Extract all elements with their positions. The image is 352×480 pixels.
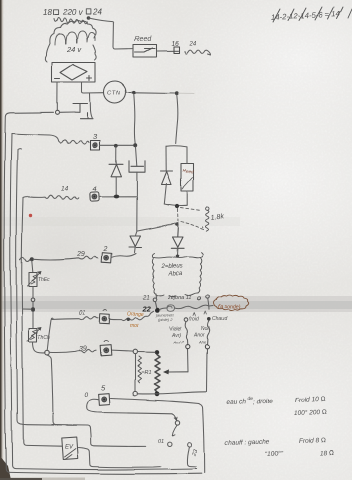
bus wire V2 bbox=[10, 134, 196, 470]
junction dot on 01 row bbox=[127, 318, 130, 321]
scribble circle node bbox=[167, 305, 175, 312]
junction dot row29 bbox=[30, 257, 34, 261]
svg-text:Avr): Avr) bbox=[171, 333, 181, 339]
wire ThCh to node circle 39 bbox=[33, 342, 45, 353]
svg-text:14-2-12-14-5-8 = 14: 14-2-12-14-5-8 = 14 bbox=[271, 9, 342, 22]
bus wire V1 outermost bbox=[4, 112, 201, 474]
reed switch box bbox=[133, 45, 156, 58]
wire reed to terminal 16 bbox=[156, 50, 178, 52]
svg-text:≈R1: ≈R1 bbox=[141, 370, 151, 376]
big enclosure right edge bbox=[199, 404, 204, 473]
potentiometer body zigzag bbox=[155, 355, 160, 393]
svg-text:24 v: 24 v bbox=[66, 45, 82, 54]
right loop top wire bbox=[166, 146, 187, 147]
junction blob row4 bbox=[114, 195, 120, 199]
svg-text:CTN: CTN bbox=[108, 91, 122, 97]
wire ThEc down bbox=[32, 287, 34, 299]
bridge rectifier diamond bbox=[61, 65, 88, 81]
svg-text:Reed: Reed bbox=[182, 168, 194, 175]
node circle wiper top bbox=[185, 345, 189, 349]
bottom wire of right loop bbox=[164, 204, 187, 206]
svg-text:eau ch: eau ch bbox=[227, 398, 247, 406]
svg-text:Ahe: Ahe bbox=[198, 340, 207, 345]
svg-text:Reed: Reed bbox=[134, 36, 152, 43]
wire 01-corner down through node39 bbox=[47, 318, 62, 425]
svg-text:; droite: ; droite bbox=[253, 398, 273, 406]
faint fold band upper bbox=[0, 217, 240, 226]
01 row wire from corner bbox=[51, 317, 99, 320]
svg-text:2=bleus: 2=bleus bbox=[160, 264, 182, 270]
relay coil Reed (vertical box) bbox=[181, 164, 194, 192]
wire froid down to pot wiper node bbox=[185, 322, 187, 345]
terminal box 39 bbox=[100, 341, 111, 356]
svg-text:23: 23 bbox=[191, 448, 199, 458]
svg-text:100° 200 Ω: 100° 200 Ω bbox=[294, 408, 327, 417]
strike marks over arithmetic bbox=[273, 7, 352, 22]
faint stub right of node B bbox=[179, 92, 195, 94]
bus wire V3 with bottom run to contact 01 bbox=[16, 149, 146, 447]
contact terminal 23 bbox=[187, 443, 191, 447]
solenoid valve EV box bbox=[62, 437, 78, 459]
diode D1 bbox=[129, 236, 142, 248]
node circle pot bottom left bbox=[133, 391, 137, 395]
junction dot right loop bbox=[175, 204, 179, 208]
switch blade with arrow bbox=[172, 426, 177, 436]
tiny arrows froid chaud bbox=[194, 312, 207, 316]
diode D3 (right loop) bbox=[161, 171, 173, 185]
wire box39 to pot top bbox=[112, 351, 133, 352]
wire pot top segment bbox=[137, 351, 155, 353]
node circle left of capacitor bbox=[56, 110, 60, 114]
svg-text:Abca: Abca bbox=[167, 272, 182, 278]
row29 bus hump bbox=[20, 257, 30, 261]
svg-text:froid: froid bbox=[190, 317, 200, 323]
terminal box 5 bbox=[99, 394, 110, 406]
svg-text:0: 0 bbox=[84, 392, 88, 399]
wire box2 to D1 bottom bbox=[112, 254, 137, 258]
thermistor ThEc bbox=[28, 271, 42, 287]
minus sign bbox=[55, 78, 60, 80]
reed switch contacts bbox=[135, 48, 155, 52]
bridge rectifier box bbox=[52, 63, 96, 83]
label 24 with terminal square bbox=[86, 8, 102, 17]
resistor squiggle row3 bbox=[59, 139, 90, 143]
handwriting note line 1 bbox=[227, 396, 273, 406]
junction dot pot bottom bbox=[155, 391, 160, 396]
resistor squiggle row4 bbox=[28, 196, 79, 200]
label 18 with terminal square bbox=[43, 8, 58, 17]
svg-text:18: 18 bbox=[43, 8, 52, 17]
terminal circle at 1.8k top bbox=[206, 207, 209, 210]
svg-text:24: 24 bbox=[92, 8, 102, 17]
terminal box 01 bbox=[100, 310, 110, 324]
wire chaud down to pot right node bbox=[207, 321, 209, 344]
junction dot 22 bbox=[155, 308, 160, 313]
node circle froid bbox=[184, 318, 188, 322]
right loop left wire bbox=[165, 146, 167, 170]
svg-text:18 Ω: 18 Ω bbox=[320, 450, 334, 457]
wire bridge minus down to node bbox=[56, 82, 58, 110]
wire from junction to reed switch bbox=[88, 18, 132, 49]
wire loop top to reed coil bbox=[186, 147, 188, 164]
plus sign bbox=[87, 76, 92, 81]
dashed wire lower to 1.8k bottom bbox=[181, 222, 204, 230]
resistor R1 zigzag bbox=[138, 357, 142, 383]
wire node to junction bbox=[32, 302, 34, 308]
svg-text:3: 3 bbox=[93, 132, 98, 141]
svg-text:29: 29 bbox=[76, 251, 85, 258]
wire node B down to right loop bbox=[176, 95, 178, 144]
capacitor C1 plates bbox=[73, 104, 93, 119]
wire box4 to D1 column bbox=[99, 196, 137, 198]
pot bottom wire to right branch bbox=[137, 392, 206, 394]
wire capacitor up to positive rail bbox=[90, 94, 93, 119]
svg-text:“100°”: “100°” bbox=[265, 449, 284, 458]
svg-text:EV: EV bbox=[65, 445, 74, 451]
node junction 220V bbox=[86, 16, 90, 20]
svg-text:(a sonde): (a sonde) bbox=[219, 305, 241, 311]
wire EV right side down and right bbox=[79, 448, 161, 468]
transformer T1 24V blob with coil scallops bbox=[50, 21, 96, 45]
wire reed coil to bottom node bbox=[186, 191, 188, 205]
node circle 39 bbox=[45, 350, 50, 355]
left scan edge bbox=[0, 0, 2, 480]
orange dot mark bbox=[29, 214, 32, 217]
wire junction to bus bbox=[22, 308, 31, 310]
svg-text:ThEc: ThEc bbox=[38, 277, 50, 283]
node dot chaud bbox=[208, 318, 212, 322]
svg-text:Froid 10 Ω: Froid 10 Ω bbox=[295, 396, 326, 404]
junction dot pot top bbox=[154, 350, 158, 354]
wire box5 right to box edge bbox=[111, 399, 200, 404]
junction dot row3 right bbox=[133, 143, 137, 147]
cloud a sonde bbox=[214, 295, 249, 310]
wire box01 to 22 junction bbox=[110, 311, 154, 321]
resistor 1.8k zigzag bbox=[205, 210, 208, 231]
right branch wire up bbox=[206, 349, 209, 392]
svg-text:zéjona 11: zéjona 11 bbox=[167, 295, 191, 301]
svg-text:2: 2 bbox=[103, 247, 108, 254]
wire box3 to nodes bbox=[100, 144, 133, 146]
crossed-out arithmetic top right bbox=[271, 9, 342, 22]
wire bridge plus to CTN bbox=[82, 82, 104, 93]
node B junction dot bbox=[175, 91, 179, 95]
wire box5 left loop down to switch row bbox=[87, 399, 172, 414]
thermistor ThEc branch down bbox=[32, 261, 33, 272]
svg-text:Froid 8 Ω: Froid 8 Ω bbox=[299, 437, 326, 445]
bottom scan edge bbox=[0, 478, 85, 480]
svg-text:1.8k: 1.8k bbox=[210, 213, 225, 222]
node circle right branch top bbox=[205, 345, 209, 349]
svg-text:14: 14 bbox=[61, 186, 69, 193]
row4 wire from bus corner bbox=[23, 196, 28, 199]
svg-text:01: 01 bbox=[79, 311, 86, 317]
wire down to ThCh bbox=[32, 311, 34, 328]
junction dot lower dashed bbox=[175, 222, 178, 225]
svg-text:24: 24 bbox=[189, 42, 197, 48]
wire down to capacitor C2 bbox=[136, 147, 137, 166]
svg-text:01: 01 bbox=[158, 439, 164, 445]
wire node39 squiggle to box bbox=[49, 350, 96, 353]
junction dot row3 left bbox=[114, 144, 118, 148]
svg-text:mot: mot bbox=[130, 323, 139, 329]
node circle mid bbox=[31, 298, 35, 302]
svg-text:Ami↗: Ami↗ bbox=[172, 340, 184, 345]
node A junction dot bbox=[132, 90, 136, 94]
wire CTN to node A bbox=[126, 91, 132, 93]
svg-text:Violet: Violet bbox=[169, 326, 182, 332]
wire to diodes crossbar bbox=[138, 223, 179, 232]
wire 23 down to bottom rail bbox=[187, 447, 196, 466]
svg-text:5: 5 bbox=[101, 384, 106, 393]
svg-text:21: 21 bbox=[142, 295, 150, 301]
wire 22 to sonde bbox=[160, 306, 214, 310]
diode D2 bbox=[171, 224, 184, 248]
wire down to diode D4 bbox=[115, 147, 117, 164]
capacitor C2 polarized cup bbox=[129, 161, 145, 172]
wire node to capacitor C1 bbox=[60, 111, 76, 113]
svg-text:220 v: 220 v bbox=[62, 8, 84, 17]
diode D4 bbox=[110, 164, 124, 177]
primary squiggle coil bbox=[54, 18, 87, 24]
scan band middle bbox=[0, 296, 352, 312]
junction dot D2 blob bbox=[175, 254, 179, 258]
node circle pot top left bbox=[133, 350, 137, 354]
switch contact circle bbox=[175, 421, 179, 425]
svg-text:Orange: Orange bbox=[127, 312, 144, 318]
label 16 and terminal square bbox=[171, 41, 179, 54]
thermistor ThCh bbox=[28, 327, 42, 342]
junction dot left bus tie bbox=[31, 307, 35, 311]
wire squiggle row29 bbox=[34, 256, 99, 259]
wiper wire up to node bbox=[187, 349, 190, 372]
cloud blob 2=bleus Abca bbox=[152, 253, 203, 258]
bus wire V4 to EV bbox=[22, 198, 62, 447]
pot wiper arrow bbox=[167, 371, 188, 373]
wire row4 corner down to D1 bbox=[136, 198, 138, 232]
svg-text:(piolé) 2: (piolé) 2 bbox=[158, 317, 173, 322]
row3 wire from bus bbox=[12, 134, 59, 141]
thermistor CTN circle bbox=[104, 81, 126, 103]
dashed wire to resistor 1.8k bbox=[181, 208, 202, 211]
wire node A to node B bbox=[136, 91, 176, 94]
arrow into switch bbox=[172, 414, 177, 421]
left branch wire down bbox=[134, 354, 136, 391]
svg-text:Anor: Anor bbox=[193, 333, 205, 339]
svg-text:Chaud: Chaud bbox=[213, 317, 228, 323]
dashed stub down from junction bbox=[177, 209, 180, 221]
svg-text:chauff : gauche: chauff : gauche bbox=[225, 438, 270, 447]
wire node A down to row3 bbox=[134, 94, 135, 144]
bottom-left dark corner blotch bbox=[0, 456, 11, 480]
label 24 wire squiggle to open end bbox=[185, 42, 211, 56]
